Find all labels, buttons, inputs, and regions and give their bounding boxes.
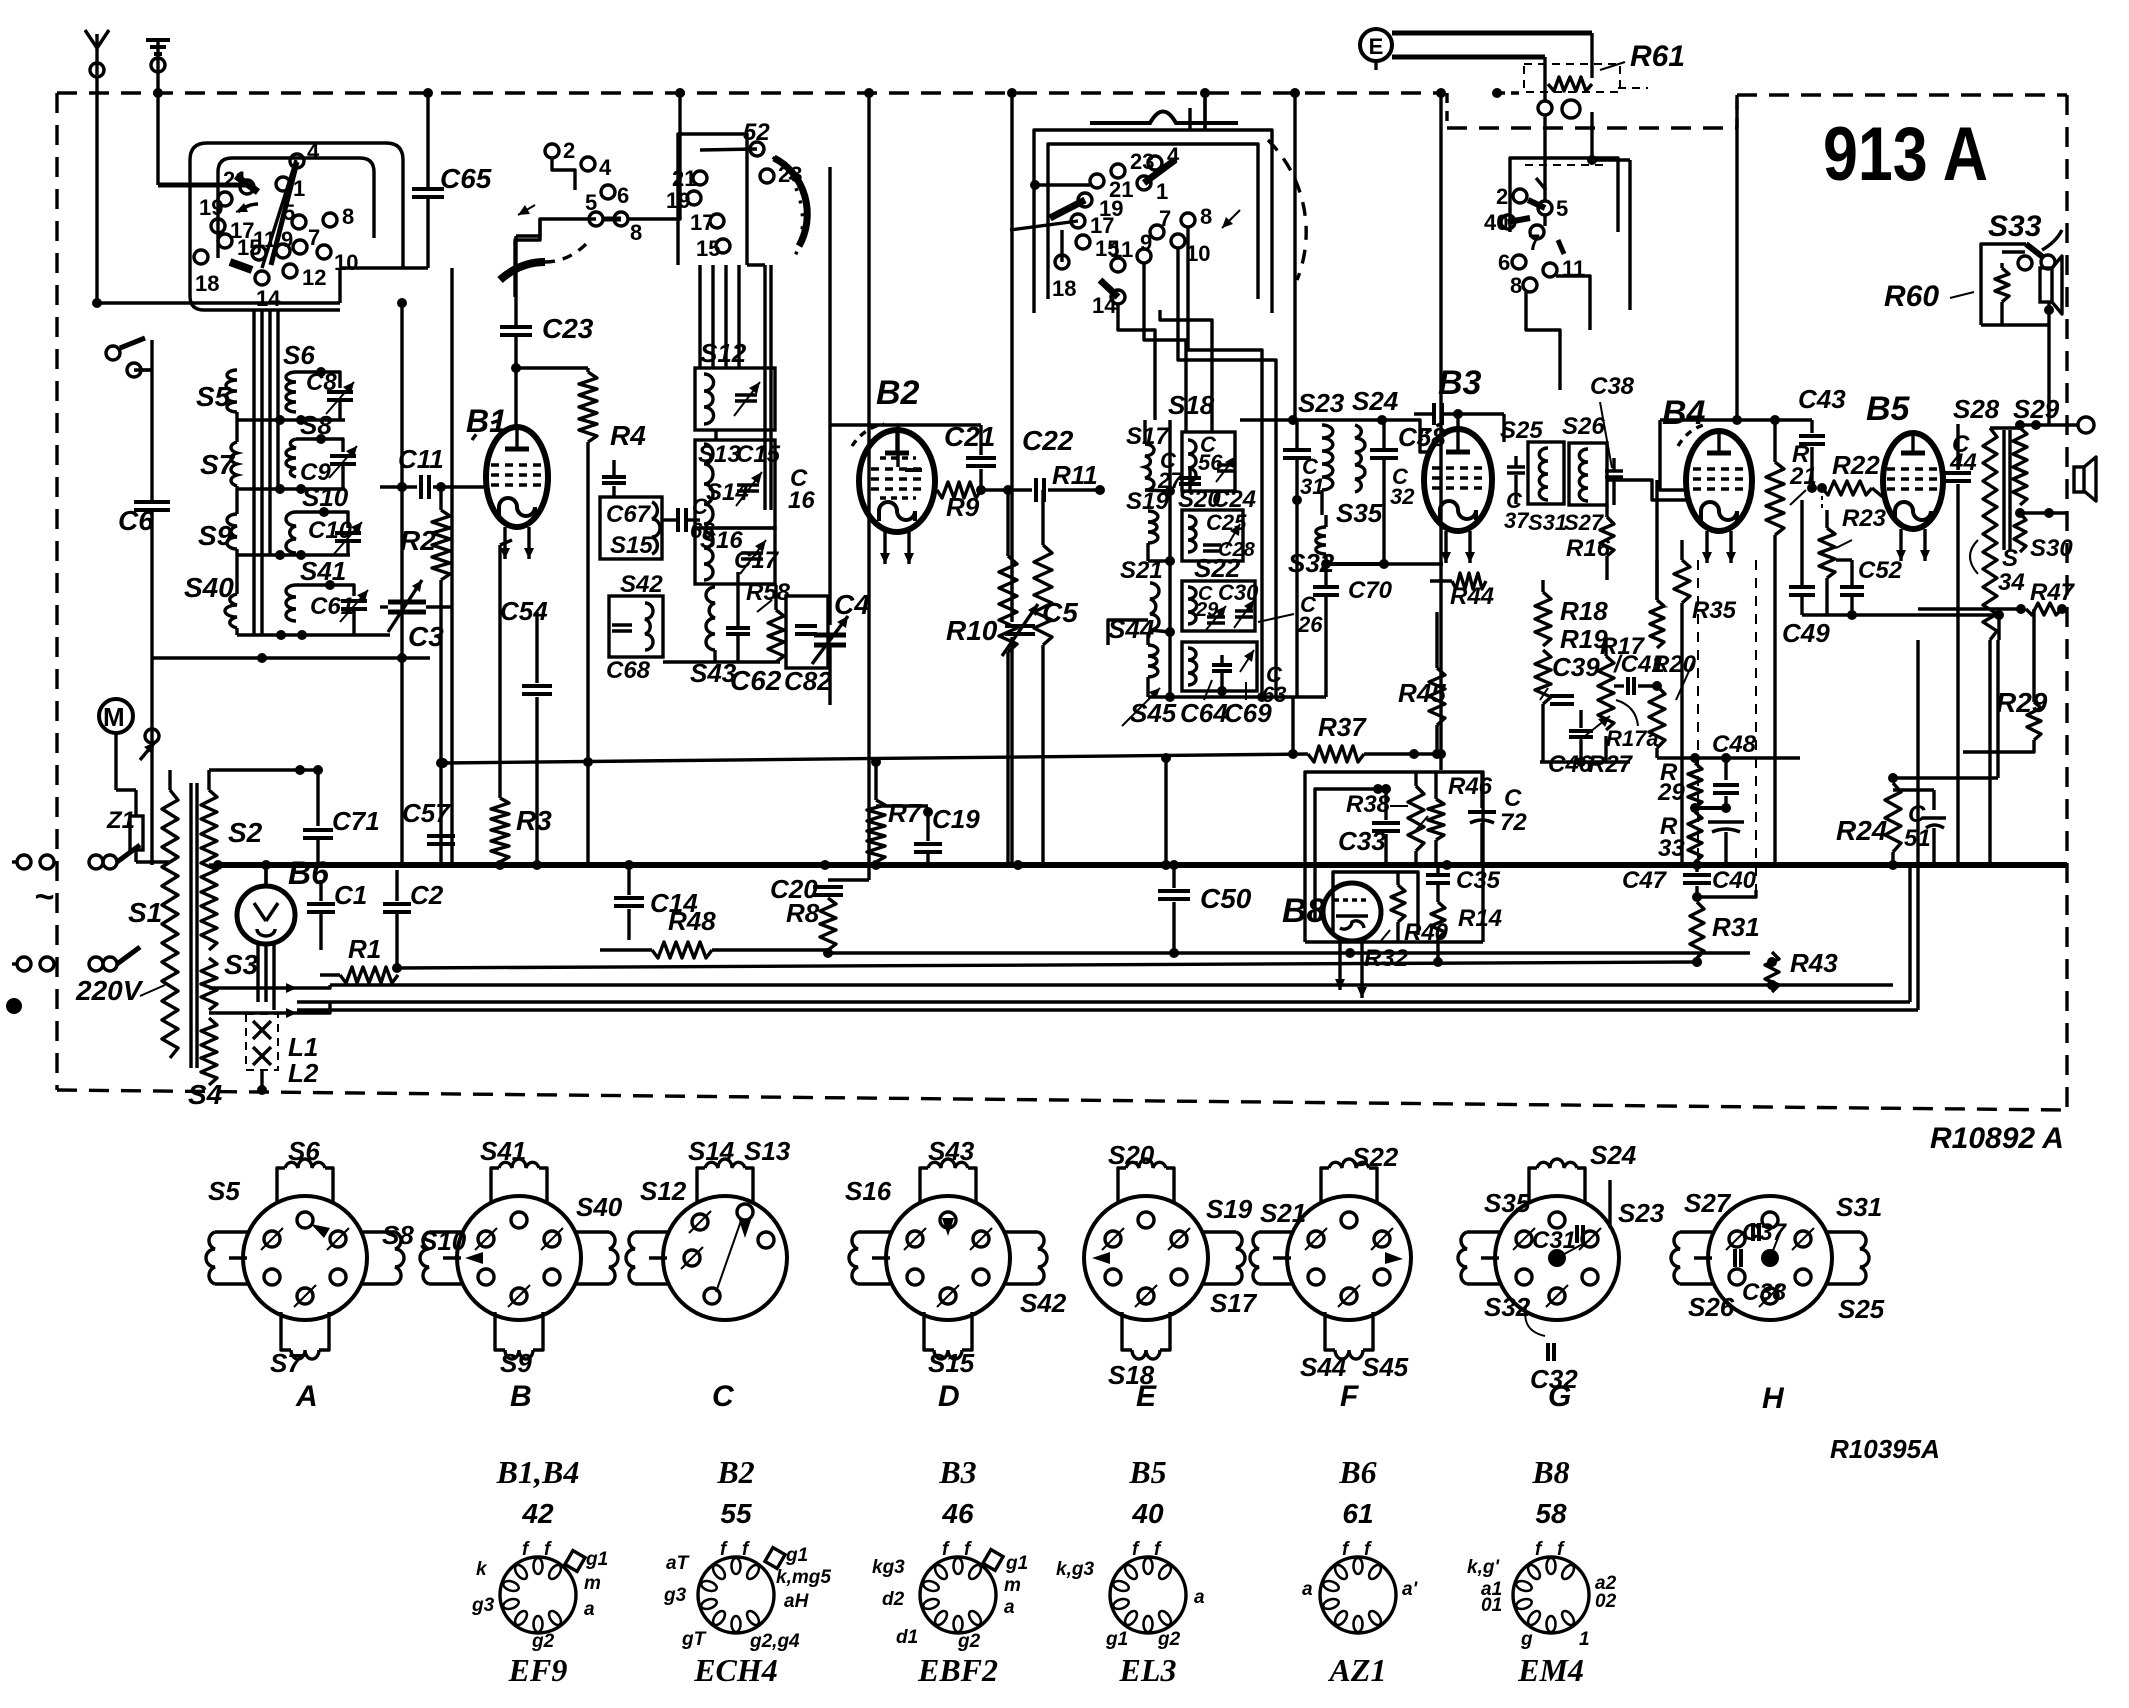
capacitor C31 — [1283, 420, 1324, 697]
resistor R11 — [1034, 460, 1098, 865]
svg-text:S9: S9 — [198, 520, 233, 551]
switch B3 wipers — [1508, 178, 1564, 254]
resistor R35b — [1674, 540, 1737, 865]
svg-text:C24: C24 — [1212, 486, 1256, 513]
svg-text:R27: R27 — [1588, 751, 1634, 778]
svg-text:R35: R35 — [1662, 605, 1668, 609]
svg-text:S45: S45 — [1130, 698, 1177, 728]
svg-text:S6: S6 — [283, 340, 315, 370]
trimmer C8 — [306, 369, 354, 420]
svg-text:S23: S23 — [1618, 1198, 1665, 1228]
cap C70 — [1288, 564, 1393, 759]
resistor R20 — [1649, 560, 1697, 748]
svg-text:26: 26 — [1297, 612, 1323, 637]
svg-text:S45: S45 — [1362, 1352, 1409, 1382]
svg-text:M: M — [103, 702, 125, 732]
wire R4 top — [516, 366, 588, 369]
capacitor C19 — [914, 804, 980, 865]
switch B2 contacts — [1052, 143, 1212, 318]
switch S33 — [1981, 210, 2062, 325]
socket B8 EM4 — [1467, 1454, 1617, 1688]
bus y953 — [830, 948, 1750, 958]
caps C64 C69 — [1180, 680, 1272, 728]
svg-text:C35: C35 — [1456, 867, 1501, 894]
svg-text:m: m — [1004, 1575, 1021, 1596]
svg-text:R38: R38 — [1346, 791, 1391, 818]
svg-text:B8: B8 — [1282, 892, 1326, 930]
wire coils bottom — [152, 653, 430, 663]
svg-text:EM4: EM4 — [1517, 1652, 1584, 1688]
svg-text:m: m — [584, 1573, 601, 1594]
svg-text:R10: R10 — [946, 615, 998, 646]
resistor R38 — [1346, 772, 1424, 865]
svg-text:S24: S24 — [1352, 386, 1399, 416]
svg-text:C39: C39 — [1552, 652, 1600, 682]
tube B5 — [1866, 390, 1943, 561]
wire AVC S32 — [1326, 559, 1443, 569]
svg-text:g: g — [1520, 1629, 1533, 1650]
trimmer C10 — [308, 517, 362, 555]
svg-text:S19: S19 — [1206, 1194, 1253, 1224]
svg-text:d1: d1 — [896, 1627, 918, 1648]
capacitor C41 — [1613, 651, 1665, 695]
wire cluster base — [1540, 704, 1630, 762]
wire S24 right — [1382, 420, 1430, 452]
svg-text:R8: R8 — [786, 898, 820, 928]
former H — [1671, 1188, 1885, 1415]
svg-text:51: 51 — [1904, 825, 1931, 852]
wire x452 — [450, 268, 453, 864]
capacitor C21 — [897, 421, 996, 490]
former F — [1250, 1142, 1411, 1413]
svg-text:10: 10 — [334, 250, 358, 275]
svg-text:C: C — [1908, 801, 1926, 828]
resistor R37 — [1308, 712, 1446, 762]
resistor R19 — [1535, 624, 1608, 704]
coil S44 — [1108, 614, 1158, 697]
wire earth to switch — [158, 183, 247, 188]
svg-text:8: 8 — [1200, 204, 1212, 229]
resistor R17 — [1598, 633, 1646, 730]
former G — [1458, 1140, 1665, 1413]
wire switch to C65 — [340, 266, 428, 269]
svg-text:C2: C2 — [410, 880, 444, 910]
svg-text:C64: C64 — [1180, 698, 1228, 728]
svg-text:C68: C68 — [606, 657, 651, 684]
capacitor C35 — [1426, 865, 1501, 902]
switch B1 wiper — [500, 205, 596, 297]
svg-text:g2: g2 — [1157, 1629, 1181, 1650]
svg-text:S7: S7 — [200, 449, 236, 480]
resistor R27 — [1581, 710, 1634, 778]
socket B1 B4 EF9 — [471, 1454, 608, 1688]
svg-text:S6: S6 — [288, 1136, 320, 1166]
resistor R35 — [1655, 480, 1658, 600]
svg-text:S27: S27 — [1684, 1188, 1732, 1218]
svg-text:C4: C4 — [834, 589, 870, 620]
svg-text:S40: S40 — [184, 572, 234, 603]
svg-text:R10395A: R10395A — [1830, 1434, 1940, 1464]
svg-text:S42: S42 — [620, 571, 663, 598]
resistor R14 — [1431, 902, 1502, 967]
svg-text:S42: S42 — [1020, 1288, 1067, 1318]
tube B4 — [1662, 394, 1752, 563]
wire B2 anode — [830, 425, 898, 467]
svg-text:S18: S18 — [1168, 390, 1215, 420]
capacitor C82 — [784, 596, 832, 696]
capacitor C6 — [118, 372, 170, 865]
capacitor C71 — [300, 765, 380, 865]
resistor R22 — [1817, 450, 1884, 510]
wire 5-8 to B1 — [629, 88, 685, 219]
svg-text:S35: S35 — [1336, 498, 1383, 528]
coil S7 — [200, 442, 237, 486]
svg-text:B1,B4: B1,B4 — [496, 1454, 580, 1490]
svg-text:C71: C71 — [332, 806, 380, 836]
svg-text:2: 2 — [563, 138, 575, 163]
svg-text:B2: B2 — [716, 1454, 754, 1490]
svg-text:C54: C54 — [500, 596, 548, 626]
capacitor C54 — [500, 596, 552, 870]
coil S19 — [1126, 488, 1170, 561]
label R10395A — [1830, 1434, 1940, 1464]
svg-text:S9: S9 — [500, 1348, 532, 1378]
svg-text:S26: S26 — [1562, 413, 1605, 440]
band switch S box inner — [218, 158, 374, 258]
svg-text:8: 8 — [1510, 273, 1522, 298]
pickup jack E — [1360, 29, 1592, 100]
svg-text:02: 02 — [1595, 1591, 1617, 1612]
svg-text:C1: C1 — [334, 880, 367, 910]
switch phono — [106, 338, 152, 377]
svg-text:C19: C19 — [932, 804, 980, 834]
pot R17a — [1580, 700, 1659, 751]
coil S28 — [1953, 394, 2000, 865]
svg-text:17: 17 — [1090, 213, 1114, 238]
IF box S22 — [1182, 553, 1259, 631]
svg-text:g3: g3 — [663, 1585, 687, 1606]
svg-text:5: 5 — [1556, 196, 1568, 221]
svg-text:S1: S1 — [128, 897, 162, 928]
svg-text:S24: S24 — [1590, 1140, 1637, 1170]
middle coil box S16 — [695, 527, 780, 584]
svg-text:18: 18 — [1052, 276, 1076, 301]
svg-text:R37: R37 — [1318, 712, 1367, 742]
svg-text:k: k — [476, 1559, 488, 1580]
svg-text:S4: S4 — [188, 1079, 223, 1110]
svg-text:g1: g1 — [1005, 1553, 1028, 1574]
svg-text:2: 2 — [1496, 184, 1508, 209]
svg-text:B: B — [510, 1380, 532, 1413]
mains terminals — [12, 855, 54, 971]
svg-text:R46: R46 — [1448, 773, 1493, 800]
title 913 A — [1823, 112, 1988, 197]
svg-text:a: a — [584, 1599, 595, 1620]
svg-text:S22: S22 — [1194, 553, 1241, 583]
svg-text:S30: S30 — [2030, 535, 2073, 562]
svg-text:R16: R16 — [1566, 535, 1611, 562]
svg-text:72: 72 — [1500, 809, 1527, 836]
svg-text:C58: C58 — [1398, 422, 1446, 452]
svg-text:R43: R43 — [1790, 948, 1838, 978]
resistor R1 — [320, 934, 398, 983]
svg-text:S16: S16 — [845, 1176, 892, 1206]
wire x402 — [397, 298, 407, 864]
svg-text:k,g': k,g' — [1467, 1557, 1500, 1578]
resistor R61 — [1492, 40, 1685, 98]
svg-text:40: 40 — [1131, 1498, 1164, 1529]
motor M — [99, 699, 159, 790]
bus y1002 — [297, 1000, 1910, 1003]
middle coil box S13S14 — [695, 440, 815, 528]
svg-text:g1: g1 — [785, 1545, 808, 1566]
svg-text:a: a — [1004, 1597, 1015, 1618]
svg-text:R24: R24 — [1836, 815, 1888, 846]
svg-text:R35: R35 — [1692, 597, 1737, 624]
svg-text:S17: S17 — [1210, 1288, 1258, 1318]
B8 boxes — [1305, 772, 1483, 942]
svg-text:01: 01 — [1481, 1595, 1502, 1616]
svg-text:R18: R18 — [1560, 596, 1608, 626]
svg-text:S14: S14 — [688, 1136, 735, 1166]
wire B1 bottom — [500, 540, 512, 545]
resistor R33 — [1658, 812, 1702, 862]
svg-text:S25: S25 — [1500, 417, 1543, 444]
fuse Z1 — [106, 790, 143, 862]
wires middle box — [700, 167, 830, 625]
coil S17 — [1126, 420, 1170, 491]
bus y762 — [438, 753, 1308, 768]
svg-text:17: 17 — [690, 210, 714, 235]
svg-text:g3: g3 — [471, 1595, 495, 1616]
svg-text:42: 42 — [521, 1498, 554, 1529]
capacitor C65 — [412, 163, 492, 268]
jack circle — [1538, 88, 1648, 118]
svg-text:C8: C8 — [306, 369, 337, 396]
svg-text:R7: R7 — [888, 798, 923, 828]
resistor R45 — [1398, 612, 1446, 759]
svg-text:C6: C6 — [118, 505, 154, 536]
resistor R23 — [1819, 505, 1887, 615]
switch B2 wipers — [1010, 112, 1240, 298]
wire node A — [97, 301, 340, 304]
svg-text:aH: aH — [784, 1591, 810, 1612]
wire grid top — [514, 368, 517, 427]
svg-text:g2,g4: g2,g4 — [749, 1631, 800, 1652]
svg-text:F: F — [1340, 1380, 1359, 1413]
svg-text:ECH4: ECH4 — [693, 1652, 778, 1688]
wire bottom left heaters — [297, 985, 330, 1013]
bus right verts — [1910, 640, 1918, 1010]
IF2 box S26 — [1562, 373, 1635, 535]
band switch S box outer — [190, 143, 403, 310]
box B2 switch — [1034, 130, 1272, 313]
svg-text:9: 9 — [281, 227, 293, 252]
bus y985 — [330, 980, 1893, 990]
mains plug dot — [6, 998, 22, 1014]
coil S6 — [283, 340, 340, 412]
coil S43h — [663, 587, 780, 688]
svg-text:C5: C5 — [1042, 597, 1078, 628]
wire top y303 right — [338, 268, 341, 303]
svg-text:C40: C40 — [1712, 867, 1757, 894]
resistor R43 — [1765, 948, 1838, 992]
mains switch — [75, 845, 144, 1006]
IF box S20b — [1178, 486, 1256, 561]
svg-text:S8: S8 — [300, 410, 332, 440]
lamp box L1 L2 — [246, 1014, 319, 1095]
coil S8 — [286, 410, 343, 477]
wire x1205t — [1200, 88, 1210, 130]
svg-text:1: 1 — [1156, 179, 1168, 204]
label S30 — [2015, 508, 2073, 562]
cap C46 — [1548, 731, 1593, 778]
svg-text:S2: S2 — [228, 817, 263, 848]
transformer primary S1 — [128, 770, 178, 1058]
svg-text:S10: S10 — [420, 1226, 467, 1256]
resistor R18 — [1535, 580, 1608, 646]
transformer core — [191, 783, 197, 1068]
svg-text:31: 31 — [1300, 474, 1324, 499]
svg-text:C49: C49 — [1782, 618, 1830, 648]
svg-text:B6: B6 — [288, 855, 329, 891]
svg-text:14: 14 — [256, 286, 281, 311]
wire x1166 — [1164, 758, 1167, 865]
coil S5 — [196, 370, 237, 412]
speaker top — [2040, 256, 2062, 425]
resistor R21 — [1766, 415, 1817, 865]
trimmer C9 — [300, 446, 357, 489]
capacitor C22 — [981, 425, 1105, 502]
capacitor C50 — [1158, 860, 1252, 958]
IF box S20a — [1182, 432, 1236, 491]
wire b5 r24 — [1888, 640, 1998, 783]
svg-text:R45: R45 — [1398, 678, 1446, 708]
coil box S15/C67 — [600, 497, 662, 559]
svg-text:E: E — [1136, 1380, 1157, 1413]
svg-text:C10: C10 — [308, 517, 353, 544]
svg-text:6: 6 — [617, 183, 629, 208]
former A — [206, 1136, 414, 1413]
svg-text:R11: R11 — [1052, 460, 1098, 490]
svg-text:40: 40 — [1484, 210, 1508, 235]
earth terminal — [146, 40, 170, 72]
svg-text:C43: C43 — [1798, 384, 1846, 414]
svg-text:S31: S31 — [1528, 510, 1567, 535]
svg-text:L2: L2 — [288, 1058, 319, 1088]
svg-text:S40: S40 — [576, 1192, 623, 1222]
svg-text:a: a — [1302, 1579, 1313, 1600]
capacitor C57 — [402, 758, 455, 844]
IF can center spine — [1165, 420, 1175, 702]
tube B3 — [1418, 364, 1492, 563]
svg-text:7: 7 — [1159, 206, 1171, 231]
coil box S42/C68 — [606, 571, 663, 684]
svg-text:12: 12 — [302, 265, 326, 290]
svg-text:S32: S32 — [1484, 1292, 1531, 1322]
svg-text:15: 15 — [696, 236, 720, 261]
capacitor C27 — [1157, 448, 1201, 493]
svg-text:8: 8 — [342, 204, 354, 229]
capacitor C58 — [1398, 403, 1504, 452]
capacitor C62 — [726, 572, 782, 696]
switch B2 arc — [1190, 108, 1306, 280]
B2 hexode extra — [880, 458, 922, 498]
svg-text:11: 11 — [1110, 237, 1133, 262]
svg-text:a': a' — [1402, 1579, 1419, 1600]
wire sw2 verticals — [1118, 93, 1276, 432]
svg-text:S29: S29 — [2013, 394, 2060, 424]
trimmer C3 — [380, 580, 452, 652]
svg-text:46: 46 — [941, 1498, 974, 1529]
svg-text:C22: C22 — [1022, 425, 1074, 456]
svg-text:C23: C23 — [542, 313, 594, 344]
svg-text:S25: S25 — [1838, 1294, 1885, 1324]
capacitor C72 — [1468, 772, 1527, 865]
svg-text:C62: C62 — [730, 665, 782, 696]
row lines — [237, 415, 390, 640]
svg-text:S23: S23 — [1298, 388, 1345, 418]
svg-text:R9: R9 — [946, 492, 980, 522]
vertical wires switch-coils — [237, 310, 278, 635]
capacitor C52 — [1836, 557, 1903, 620]
svg-text:S41: S41 — [480, 1136, 526, 1166]
labels C26 — [1258, 592, 1323, 637]
B4 arrows — [0, 0, 1, 1]
switch B3 contacts — [1484, 184, 1585, 298]
resistor R8 — [786, 898, 836, 958]
coil S29 — [2004, 394, 2060, 552]
svg-text:R23: R23 — [1842, 505, 1887, 532]
svg-text:C46: C46 — [1548, 751, 1593, 778]
tube B1 — [466, 403, 548, 559]
box B3 switch — [1510, 158, 1618, 232]
svg-text:37: 37 — [1504, 508, 1530, 533]
capacitor C11 — [380, 444, 488, 499]
svg-text:H: H — [1762, 1382, 1785, 1415]
wire osc step — [552, 158, 575, 190]
svg-text:C61: C61 — [310, 593, 354, 620]
capacitor C2 — [383, 870, 444, 973]
svg-text:AZ1: AZ1 — [1328, 1652, 1387, 1688]
svg-text:R4: R4 — [610, 420, 646, 451]
trimmer C5 — [1002, 88, 1078, 865]
socket B3 EBF2 — [872, 1454, 1028, 1688]
chassis dashed border — [57, 93, 2067, 1110]
socket B5 EL3 — [1056, 1454, 1205, 1688]
svg-text:S35: S35 — [1484, 1188, 1531, 1218]
svg-text:S15: S15 — [928, 1348, 975, 1378]
coil S41 — [286, 556, 354, 621]
capacitor C23 — [500, 219, 594, 373]
svg-text:E: E — [1369, 34, 1384, 59]
svg-text:21: 21 — [1789, 463, 1817, 490]
svg-text:B3: B3 — [1438, 364, 1482, 402]
band switch wipers — [230, 160, 297, 270]
svg-text:EF9: EF9 — [508, 1652, 568, 1688]
former B — [420, 1136, 623, 1413]
svg-text:6: 6 — [1498, 250, 1510, 275]
svg-text:k,g3: k,g3 — [1056, 1559, 1094, 1580]
svg-text:18: 18 — [195, 271, 219, 296]
resistor R60 — [1884, 252, 2025, 325]
svg-text:kg3: kg3 — [872, 1557, 905, 1578]
svg-text:S33: S33 — [1988, 210, 2042, 243]
svg-text:EBF2: EBF2 — [917, 1652, 998, 1688]
coil S45 — [1122, 688, 1177, 728]
svg-text:EL3: EL3 — [1119, 1652, 1177, 1688]
label 220 arrow — [140, 985, 165, 996]
